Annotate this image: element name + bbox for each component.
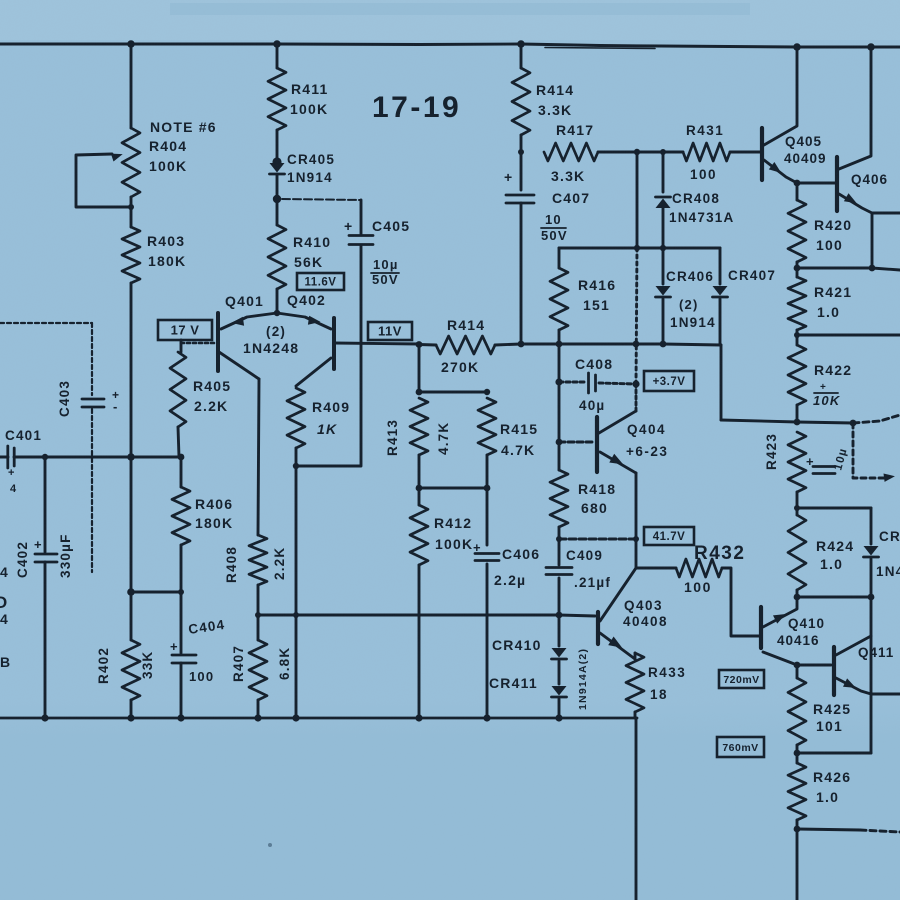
wire 829 horizontal — [797, 829, 860, 830]
transistor Q401 collector — [219, 352, 259, 379]
node Q404 base wire — [556, 439, 563, 446]
label C407 fraction bar — [541, 227, 566, 229]
wire CR408 bottom — [662, 208, 665, 248]
wire R412 to rail — [418, 565, 421, 718]
wire CR col upper — [558, 615, 561, 646]
node 615/R409col — [293, 612, 299, 618]
wire R416col down — [558, 344, 561, 382]
wire Q411 base wire — [797, 664, 831, 667]
wire C main — [521, 344, 721, 345]
wire C408 right lead — [599, 383, 636, 384]
node 508 — [794, 505, 800, 511]
capacitor C405 — [349, 234, 373, 237]
wire C407 to wire-C — [520, 203, 523, 344]
node 615/C409col — [556, 612, 563, 619]
wire x637 vertical dotted — [636, 248, 637, 384]
wire input main — [14, 456, 181, 459]
diode CR411 — [552, 686, 567, 696]
wire C corner down — [720, 345, 723, 420]
node top-rail/R411 — [273, 40, 281, 48]
node 152/CR408 — [660, 149, 666, 155]
resistor R431 — [683, 143, 730, 161]
transistor Q404 collector — [599, 411, 636, 433]
transistor Q403 emitter — [600, 633, 635, 659]
wire R421 to 335 — [796, 330, 799, 335]
wire rail sketch double — [545, 48, 655, 49]
wire rail to R414v — [520, 44, 523, 68]
wire Q403 emitter to R433 — [634, 653, 637, 659]
wire B — [559, 247, 720, 250]
resistor R418 — [550, 470, 568, 527]
node rail/C404 — [177, 714, 184, 721]
node 753 — [794, 750, 801, 757]
transistor Q411 emitter arrow — [843, 678, 856, 688]
wire R409 to node466 — [295, 448, 298, 466]
capacitor C409 — [546, 566, 572, 569]
wire rail to R404 — [130, 44, 133, 128]
wire C406 upper — [486, 488, 489, 545]
wire input to R406 — [180, 457, 183, 487]
wire R411 to CR405 — [276, 130, 279, 162]
transistor Q411 emitter — [836, 678, 871, 694]
node 488 right — [484, 485, 491, 492]
wire 508 to R424 — [796, 508, 799, 515]
wire R404 to R403 — [130, 197, 133, 227]
node 466 — [293, 463, 299, 469]
wire Q404emitter to R432 node — [635, 539, 638, 568]
wire C405 vertical lower — [296, 246, 361, 466]
wire CR mid — [558, 661, 561, 684]
transistor Q404 base bar — [595, 417, 599, 472]
wire dashed 853 down — [853, 423, 884, 478]
transistor Q402 emitter arrow — [308, 316, 321, 325]
transistor Q410 collector — [763, 597, 797, 627]
transistor Q405 emitter — [764, 160, 797, 183]
wire ground rail — [0, 717, 637, 720]
wire C402 column lower — [44, 562, 47, 718]
wire R412 lead — [418, 488, 421, 505]
wire 17V box down — [180, 340, 183, 352]
node 268/Q406 — [869, 265, 876, 272]
meter box 760mV — [717, 737, 764, 757]
wire Q402 base to R414 — [334, 343, 419, 344]
resistor R411 — [268, 68, 286, 130]
node R402 top — [127, 588, 135, 596]
node rail/R402 — [127, 714, 134, 721]
wire R409col down — [295, 466, 298, 615]
wire node615 to R407 — [257, 615, 260, 640]
node top-rail/Q405 collector — [793, 43, 801, 51]
resistor R414 3.3K — [512, 68, 530, 135]
transistor Q404 emitter — [600, 452, 636, 473]
wire 268 to R421 — [796, 268, 799, 277]
meter box 17V — [158, 320, 212, 340]
node input/R405 — [178, 454, 185, 461]
wire 17V box to Q401 base — [181, 342, 217, 345]
wire R422 to D — [796, 405, 799, 422]
node CR405 anode — [272, 157, 281, 166]
wire R402 to ground rail — [130, 700, 133, 718]
capacitor C408 — [587, 373, 590, 393]
node wireC/R416 — [556, 341, 563, 348]
wire 753 horizontal — [797, 752, 871, 755]
wire R426 to 829 — [796, 820, 799, 829]
pot wiper arrow R404 — [111, 154, 123, 162]
node rail/CR411 — [555, 714, 562, 721]
wire R415 to 488 — [486, 455, 489, 488]
resistor R433 — [626, 653, 644, 712]
wire 539 horizontal — [559, 538, 636, 541]
resistor R414 270K — [436, 336, 495, 354]
wire 665 to R425 — [796, 665, 799, 678]
wire CR408 top — [662, 152, 665, 192]
wire C402 column upper — [44, 457, 47, 552]
wire R418 to corner539 — [558, 527, 561, 539]
resistor R423 — [788, 432, 806, 492]
scan texture — [0, 0, 1, 1]
wire 753 to R426 — [796, 753, 799, 763]
node 392 left — [416, 389, 423, 396]
node 597/CR409 — [868, 594, 875, 601]
resistor R408 — [249, 535, 267, 585]
wire 829 down to edge — [796, 829, 799, 900]
transistor Q402 base bar — [332, 318, 336, 369]
wire R406 to node592 — [180, 545, 183, 592]
wire C405 vertical upper — [360, 200, 363, 234]
resistor R420 — [788, 200, 806, 262]
wire C406 lower — [486, 564, 489, 718]
transistor Q401 emitter — [221, 313, 277, 329]
node 248/x637 — [634, 245, 640, 251]
wire 335 to R422 — [796, 335, 799, 345]
node rail/R407 — [254, 714, 261, 721]
capacitor 10u float — [813, 465, 835, 468]
wire C404 to rail — [180, 663, 183, 718]
wire CR407 to wireC corner — [719, 299, 722, 345]
wire emitter wire y183 — [797, 182, 835, 185]
transistor Q402 emitter — [277, 313, 331, 329]
node 592/C404 — [178, 589, 184, 595]
transistor Q404 emitter arrow — [609, 454, 623, 465]
wire 597 horizontal — [797, 596, 871, 599]
node top-rail/R414 — [517, 40, 525, 48]
arrow dashed end — [884, 474, 895, 482]
wire Q401 collector down — [258, 379, 259, 535]
transistor Q410 emitter — [763, 652, 797, 665]
wire R408 to node615 — [257, 585, 260, 615]
wire 335 horizontal — [797, 334, 900, 337]
resistor R407 — [249, 640, 267, 700]
transistor Q411 collector — [836, 636, 871, 655]
wire C408 left lead — [559, 381, 586, 384]
resistor R403 — [122, 227, 140, 283]
wire rail to R411 — [276, 44, 279, 68]
label R422 bar — [814, 392, 838, 394]
wire R403 down to lower node — [130, 283, 133, 592]
transistor Q406 base bar — [835, 157, 839, 211]
node rail/R412 — [415, 714, 422, 721]
node input-wire/R403 column — [127, 453, 135, 461]
diode CR410 — [552, 648, 567, 658]
wire 183 to R420 — [796, 183, 799, 200]
wire R433 to rail — [634, 712, 637, 718]
wire shield vertical lower — [91, 409, 93, 572]
wire Q411 emitter out — [871, 693, 900, 696]
meter box 11.6V — [297, 273, 344, 290]
resistor R410 — [268, 225, 286, 289]
meter box 41.7V — [644, 527, 694, 545]
wire R413 top lead — [418, 345, 421, 393]
capacitor C406 — [475, 552, 499, 555]
wire shield dashes top — [0, 322, 92, 324]
wire R416 to wireC — [558, 330, 561, 344]
wire input stub — [0, 456, 8, 459]
wire B to R416 — [558, 248, 561, 268]
wire Q404 emitter down — [635, 473, 638, 539]
wire CR406 stub — [662, 248, 665, 284]
node 152/x637 — [634, 149, 640, 155]
wire Q406 emitter out — [872, 212, 900, 215]
node R417 left — [518, 149, 524, 155]
node 268/R420 — [794, 265, 801, 272]
wire pot feedback box — [76, 154, 131, 207]
capacitor C402 — [35, 553, 57, 556]
transistor Q403 emitter arrow — [608, 637, 622, 648]
wire R416col to R418 — [558, 442, 561, 470]
resistor R412 — [410, 505, 428, 565]
diode CR409 — [864, 546, 879, 556]
node R404 bottom — [128, 204, 134, 210]
transistor Q406 emitter — [839, 194, 872, 213]
resistor R422 — [788, 345, 806, 405]
wire Q406 emitter down — [871, 213, 874, 268]
wire top supply rail — [0, 44, 900, 47]
wire R420 to 268 — [796, 262, 799, 268]
transistor Q405 emitter arrow — [769, 162, 782, 173]
meter box +3.7V — [644, 371, 694, 391]
wire CR409 upper — [870, 508, 873, 544]
wire node200 to R410 — [276, 200, 279, 225]
label C405 fraction bar — [371, 272, 399, 274]
transistor Q401 emitter arrow — [232, 317, 245, 326]
node wireC/CR406 — [660, 341, 667, 348]
wire node200 to C405 branch — [282, 199, 361, 200]
transistor Q410 collector arrow — [773, 614, 786, 624]
resistor R415 — [478, 398, 496, 455]
resistor R405 — [170, 352, 186, 427]
resistor R424 — [788, 515, 806, 590]
node 335 — [794, 332, 800, 338]
node 200 dot big — [273, 195, 281, 203]
node C408 right — [632, 380, 639, 387]
wire R413 to 488 — [418, 455, 421, 488]
node 597/R424 — [794, 594, 801, 601]
diode CR405 — [270, 163, 285, 173]
wire 508 horizontal — [797, 507, 871, 510]
transistor Q402 collector — [296, 358, 331, 386]
wire D — [721, 420, 853, 423]
meter box 11V — [368, 322, 412, 340]
transistor Q410 base bar — [759, 607, 763, 648]
node 665 — [794, 662, 801, 669]
wire Q404 base col — [558, 382, 561, 442]
transistor Q401 base bar — [216, 313, 220, 371]
resistor R404 — [122, 128, 140, 197]
wire 592-node to R402 — [130, 592, 133, 640]
wire C409 lower — [558, 578, 561, 615]
wire CR col lower — [558, 699, 561, 718]
capacitor C403 — [82, 398, 104, 401]
wire x871 down — [870, 597, 873, 753]
node rail/R409col — [292, 714, 299, 721]
node rail/C406 — [483, 714, 490, 721]
speck — [268, 843, 272, 847]
wire CR406 to wireC — [662, 299, 665, 344]
wire D dashed to edge — [853, 415, 900, 423]
node top-rail/R403 — [127, 40, 135, 48]
diode CR407 — [713, 286, 728, 296]
node Q403 collector top — [633, 536, 639, 542]
node D/853 — [850, 420, 857, 427]
resistor R413 — [410, 398, 428, 455]
capacitor C401 — [6, 446, 9, 468]
node D/R423 — [794, 419, 801, 426]
wire R409col to rail — [295, 615, 298, 718]
node 248/CR408 — [660, 245, 666, 251]
wire y615 base wire — [258, 615, 595, 616]
wire shield vertical — [91, 323, 93, 395]
node 488 left — [416, 485, 423, 492]
resistor R426 — [788, 763, 806, 820]
node top-rail/Q406 collector — [867, 43, 875, 51]
node R413 top-wire — [416, 341, 423, 348]
transistor Q403 base bar — [596, 612, 600, 644]
transistor Q405 base bar — [760, 128, 764, 180]
resistor R421 — [788, 277, 806, 330]
node wireC/x637 — [633, 341, 640, 348]
transistor Q403 collector — [600, 568, 636, 621]
wire R414h to C407 column — [495, 344, 521, 345]
resistor R425 — [788, 678, 806, 745]
resistor R409 — [287, 388, 305, 448]
wire 268 horizontal — [797, 268, 900, 270]
wire R431 to Q405 base — [730, 151, 760, 154]
meter box 720mV — [719, 670, 764, 688]
node 539 corner — [556, 536, 562, 542]
wire R424 to 597 — [796, 590, 799, 597]
resistor R402 — [122, 640, 140, 700]
capacitor C404 — [172, 654, 196, 657]
node 392 right — [484, 389, 490, 395]
wire R410 to emitters — [276, 289, 279, 314]
wire R407 to rail — [257, 700, 260, 718]
wire 392 horizontal — [419, 391, 487, 394]
node emitters join — [274, 310, 280, 316]
transistor Q406 collector — [839, 47, 871, 169]
wire Q404 base — [559, 441, 594, 444]
diode CR408 zener — [656, 199, 671, 209]
wire R417 to R431 — [598, 151, 683, 154]
node 183/R420 — [794, 180, 801, 187]
wire C407 stub — [520, 152, 523, 190]
wire 488 horizontal — [419, 487, 487, 490]
wire R405 to input wire — [178, 427, 179, 457]
wire node592 to C404 — [131, 591, 181, 594]
transistor Q406 emitter arrow — [844, 193, 857, 203]
wire center drop below rail — [635, 718, 638, 900]
transistor Q405 collector — [764, 48, 797, 145]
node 200 branch — [274, 197, 280, 203]
diode CR406 — [656, 286, 671, 296]
node rail/C402 — [41, 714, 48, 721]
resistor R432 — [676, 559, 722, 577]
resistor R416 — [550, 268, 568, 330]
wire CR409 lower — [870, 559, 873, 597]
wire R425 to 753 — [796, 745, 799, 753]
node C408 left — [555, 378, 562, 385]
node wireC/C407 — [518, 341, 525, 348]
wire R423 to 508 — [796, 492, 799, 508]
wire C409 upper — [558, 539, 561, 565]
wire CR405 to node200 — [276, 175, 279, 200]
capacitor C407 — [506, 194, 534, 197]
resistor R417 — [544, 143, 598, 161]
wire R432 to Q410 base — [722, 568, 759, 636]
node input/C402 — [42, 454, 48, 460]
wire to R414h — [419, 343, 436, 346]
resistor R406 — [172, 487, 190, 545]
node 829 — [794, 826, 801, 833]
wire x637 vertical upper — [636, 152, 639, 248]
node 615/R408 — [255, 612, 261, 618]
transistor Q411 base bar — [832, 647, 836, 695]
wire CR407 column — [719, 248, 722, 284]
wire to R432 — [636, 567, 676, 570]
wire R414v to R417 — [520, 135, 523, 152]
